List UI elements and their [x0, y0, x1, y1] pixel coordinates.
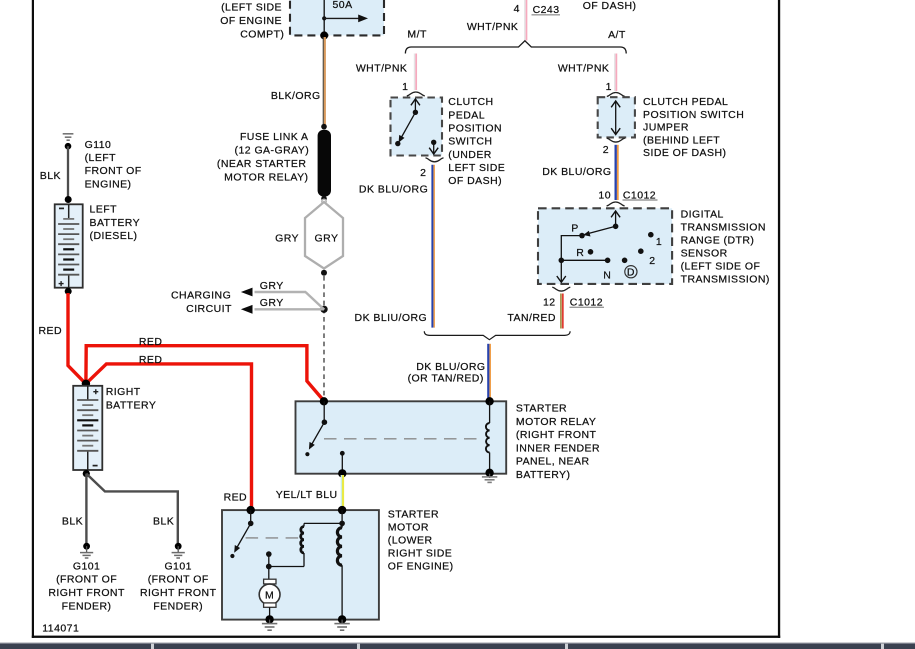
- svg-text:(UNDER: (UNDER: [448, 149, 492, 161]
- svg-text:FRONT OF: FRONT OF: [85, 165, 142, 177]
- svg-text:YEL/LT BLU: YEL/LT BLU: [276, 489, 338, 501]
- svg-text:RED: RED: [38, 325, 62, 337]
- svg-text:MOTOR RELAY: MOTOR RELAY: [516, 416, 596, 428]
- svg-text:CLUTCH: CLUTCH: [448, 96, 493, 108]
- svg-text:OF ENGINE: OF ENGINE: [220, 15, 282, 27]
- svg-text:DK BLU/ORG: DK BLU/ORG: [359, 184, 428, 196]
- svg-text:2: 2: [420, 167, 426, 179]
- svg-text:RIGHT: RIGHT: [106, 386, 141, 398]
- svg-text:PEDAL: PEDAL: [448, 109, 485, 121]
- svg-text:WHT/PNK: WHT/PNK: [467, 21, 519, 33]
- svg-text:C1012: C1012: [623, 190, 656, 202]
- svg-text:CLUTCH PEDAL: CLUTCH PEDAL: [643, 96, 728, 108]
- svg-text:ENGINE): ENGINE): [85, 178, 132, 190]
- svg-text:PANEL, NEAR: PANEL, NEAR: [516, 456, 590, 468]
- svg-text:STARTER: STARTER: [388, 509, 439, 521]
- svg-text:WHT/PNK: WHT/PNK: [558, 63, 610, 75]
- svg-text:(LEFT SIDE OF: (LEFT SIDE OF: [681, 260, 761, 272]
- svg-text:LEFT SIDE: LEFT SIDE: [448, 162, 505, 174]
- svg-text:STARTER: STARTER: [516, 403, 567, 415]
- svg-text:RANGE (DTR): RANGE (DTR): [681, 234, 755, 246]
- svg-text:MOTOR RELAY): MOTOR RELAY): [224, 171, 308, 183]
- svg-text:GRY: GRY: [260, 297, 284, 309]
- svg-text:(12 GA-GRAY): (12 GA-GRAY): [235, 145, 310, 157]
- svg-text:G101: G101: [164, 560, 192, 572]
- svg-text:BATTERY: BATTERY: [90, 217, 141, 229]
- svg-text:(FRONT OF: (FRONT OF: [148, 574, 209, 586]
- svg-text:M: M: [265, 589, 274, 601]
- svg-text:FUSE LINK A: FUSE LINK A: [240, 131, 309, 143]
- svg-text:P: P: [571, 223, 578, 235]
- svg-text:MOTOR: MOTOR: [388, 522, 429, 534]
- svg-text:GRY: GRY: [315, 233, 339, 245]
- svg-text:OF ENGINE): OF ENGINE): [388, 561, 454, 573]
- svg-text:WHT/PNK: WHT/PNK: [356, 63, 408, 75]
- svg-text:GRY: GRY: [275, 233, 299, 245]
- svg-text:RIGHT FRONT: RIGHT FRONT: [140, 587, 217, 599]
- svg-text:(RIGHT FRONT: (RIGHT FRONT: [516, 429, 597, 441]
- svg-text:4: 4: [514, 3, 520, 15]
- svg-text:TRANSMISSION): TRANSMISSION): [681, 273, 770, 285]
- svg-text:GRY: GRY: [260, 280, 284, 292]
- svg-text:D: D: [627, 266, 635, 278]
- svg-text:CHARGING: CHARGING: [171, 289, 231, 301]
- svg-text:TRANSMISSION: TRANSMISSION: [681, 221, 766, 233]
- svg-text:BATTERY: BATTERY: [106, 400, 157, 412]
- svg-text:12: 12: [543, 296, 556, 308]
- svg-text:1: 1: [606, 81, 612, 93]
- svg-text:RED: RED: [139, 336, 163, 348]
- svg-text:50A: 50A: [333, 0, 353, 11]
- svg-text:INNER FENDER: INNER FENDER: [516, 442, 600, 454]
- svg-text:SWITCH: SWITCH: [448, 136, 492, 148]
- svg-text:RIGHT FRONT: RIGHT FRONT: [48, 587, 125, 599]
- svg-text:M/T: M/T: [407, 29, 427, 41]
- svg-text:SIDE OF DASH): SIDE OF DASH): [643, 147, 726, 159]
- svg-text:OF DASH): OF DASH): [448, 175, 502, 187]
- svg-text:DK BLU/ORG: DK BLU/ORG: [416, 361, 485, 373]
- svg-text:JUMPER: JUMPER: [643, 122, 689, 134]
- svg-text:114071: 114071: [42, 622, 79, 634]
- svg-text:R: R: [576, 247, 584, 259]
- svg-text:RIGHT SIDE: RIGHT SIDE: [388, 548, 452, 560]
- svg-text:(FRONT OF: (FRONT OF: [56, 574, 117, 586]
- svg-text:BATTERY): BATTERY): [516, 469, 571, 481]
- svg-text:2: 2: [649, 255, 655, 267]
- svg-text:G110: G110: [85, 139, 112, 151]
- svg-text:(NEAR STARTER: (NEAR STARTER: [217, 158, 306, 170]
- svg-text:DK BLU/ORG: DK BLU/ORG: [542, 166, 611, 178]
- svg-text:FENDER): FENDER): [153, 601, 203, 613]
- svg-text:BLK: BLK: [40, 170, 61, 182]
- svg-text:TAN/RED: TAN/RED: [507, 312, 555, 324]
- svg-text:RED: RED: [224, 492, 248, 504]
- svg-text:POSITION SWITCH: POSITION SWITCH: [643, 109, 744, 121]
- svg-text:(LOWER: (LOWER: [388, 535, 433, 547]
- svg-text:RED: RED: [139, 354, 163, 366]
- svg-text:C1012: C1012: [570, 296, 603, 308]
- svg-text:FENDER): FENDER): [62, 601, 112, 613]
- svg-text:LEFT: LEFT: [90, 204, 118, 216]
- svg-text:(BEHIND LEFT: (BEHIND LEFT: [643, 134, 720, 146]
- svg-text:(DIESEL): (DIESEL): [90, 230, 138, 242]
- svg-text:DIGITAL: DIGITAL: [681, 208, 724, 220]
- svg-text:BLK: BLK: [62, 516, 83, 528]
- svg-text:OF DASH): OF DASH): [583, 0, 637, 12]
- svg-text:(LEFT: (LEFT: [85, 152, 117, 164]
- svg-text:1: 1: [656, 236, 662, 248]
- svg-text:(LEFT SIDE: (LEFT SIDE: [221, 1, 282, 13]
- svg-text:2: 2: [603, 144, 609, 156]
- svg-text:N: N: [603, 270, 611, 282]
- svg-text:CIRCUIT: CIRCUIT: [186, 303, 232, 315]
- svg-text:BLK/ORG: BLK/ORG: [271, 90, 321, 102]
- svg-text:SENSOR: SENSOR: [681, 247, 728, 259]
- svg-text:POSITION: POSITION: [448, 123, 502, 135]
- svg-text:C243: C243: [533, 4, 560, 16]
- svg-text:COMPT): COMPT): [240, 28, 284, 40]
- svg-text:(OR TAN/RED): (OR TAN/RED): [408, 373, 484, 385]
- svg-text:10: 10: [598, 190, 611, 202]
- svg-text:DK BLIU/ORG: DK BLIU/ORG: [355, 312, 428, 324]
- svg-text:BLK: BLK: [153, 516, 174, 528]
- svg-text:G101: G101: [73, 560, 101, 572]
- svg-text:A/T: A/T: [608, 29, 626, 41]
- svg-text:1: 1: [402, 81, 408, 93]
